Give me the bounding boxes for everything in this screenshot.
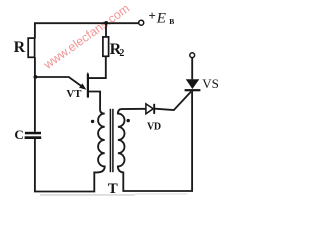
svg-text:VT: VT	[66, 88, 82, 100]
svg-text:B: B	[169, 17, 174, 26]
svg-text:T: T	[108, 181, 118, 197]
svg-text:VD: VD	[147, 121, 161, 132]
svg-text:2: 2	[119, 48, 124, 59]
svg-text:E: E	[156, 10, 166, 26]
svg-text:R: R	[14, 39, 26, 56]
svg-text:VS: VS	[202, 76, 219, 91]
svg-text:C: C	[14, 127, 23, 142]
svg-text:+: +	[148, 8, 155, 23]
svg-text:www.elecfans.com: www.elecfans.com	[40, 1, 132, 72]
